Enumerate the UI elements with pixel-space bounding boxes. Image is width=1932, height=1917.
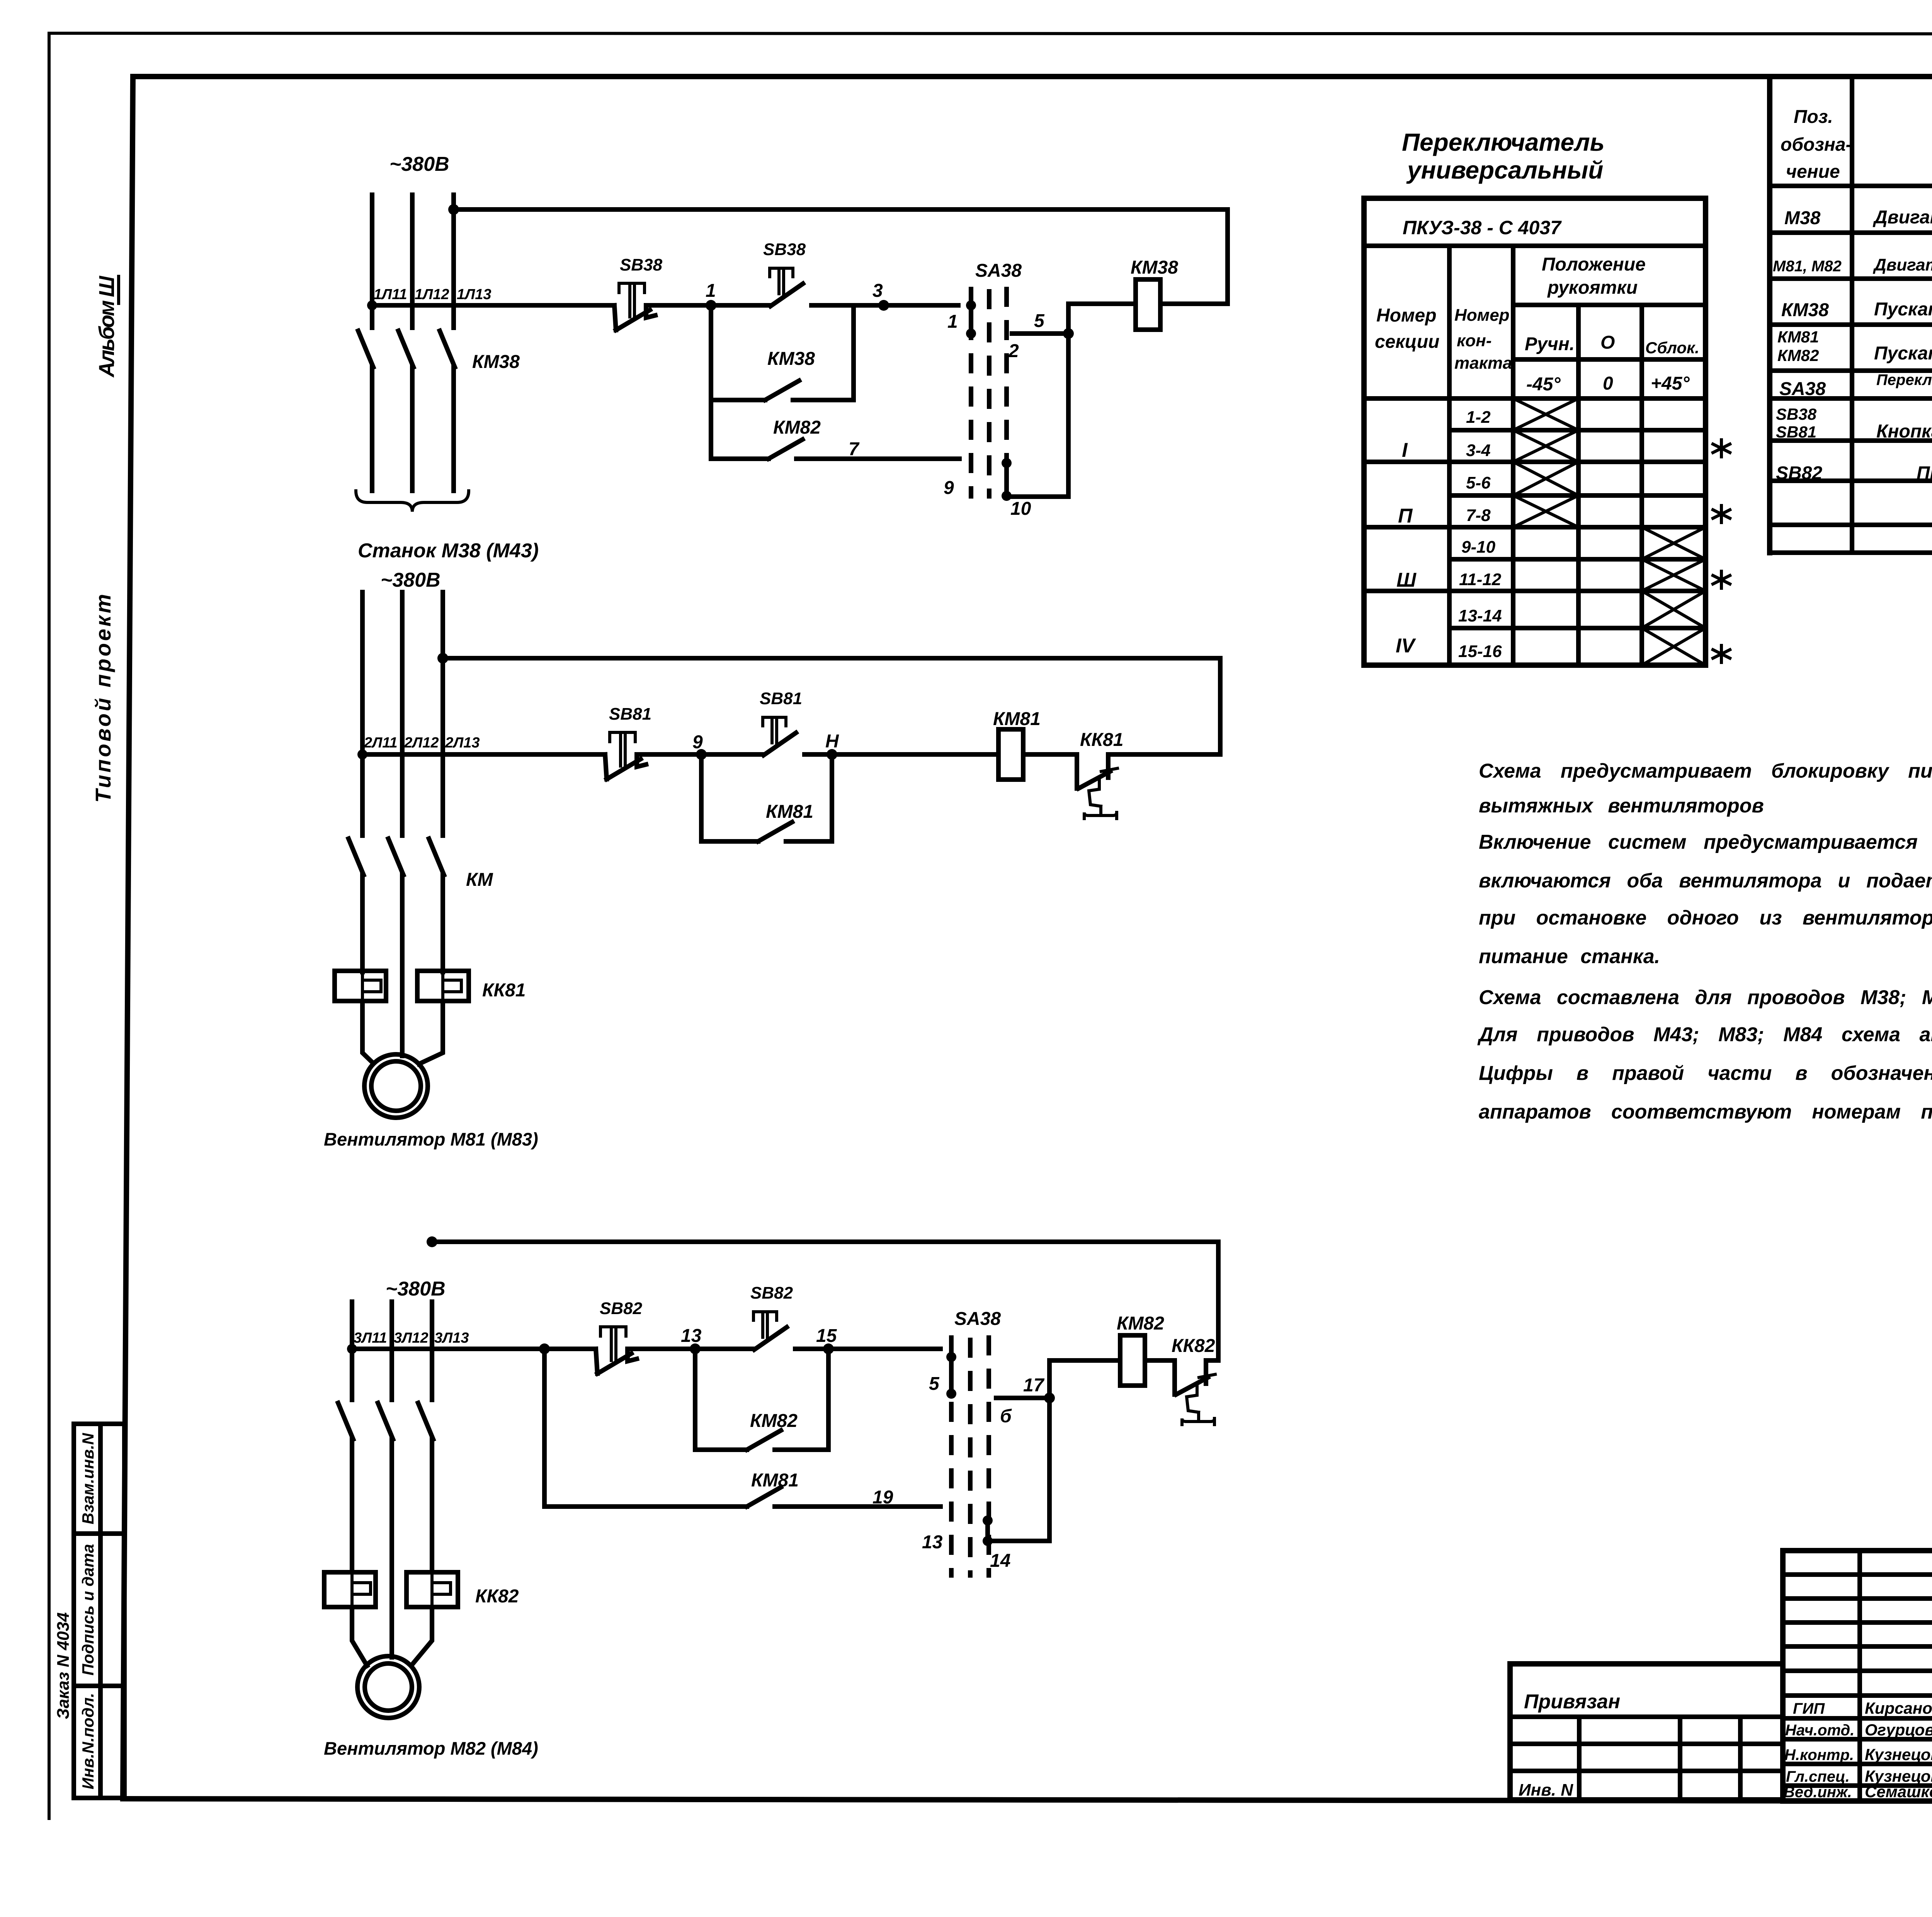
svg-text:Взам.инв.N: Взам.инв.N (79, 1432, 97, 1524)
node top rail tap circuit 1 (448, 204, 459, 215)
svg-text:б: б (1000, 1406, 1012, 1427)
svg-text:КМ38: КМ38 (767, 349, 815, 369)
svg-text:аппаратов соответствуют номе: аппаратов соответствуют номерам приводов… (1479, 1101, 1932, 1123)
thermal element KK81 heater 2 (417, 971, 469, 1001)
svg-text:7-8: 7-8 (1466, 506, 1491, 525)
svg-text:Альбом Ш: Альбом Ш (94, 276, 119, 378)
svg-text:SВ38: SВ38 (1776, 405, 1817, 423)
wire phase 2L13 middle (440, 875, 445, 972)
svg-text:КМ: КМ (466, 870, 493, 890)
parts table row line 6a (1770, 438, 1932, 443)
wire riser to coil line (1066, 304, 1071, 334)
wire bypass down leg (1007, 334, 1068, 497)
wire to motor M81 phase 1 (362, 1001, 374, 1064)
switch table section line III/IV (1364, 589, 1706, 593)
node 13 (690, 1343, 701, 1354)
strip column line b (1678, 1717, 1682, 1800)
svg-text:SВ38: SВ38 (620, 255, 663, 274)
svg-text:SА38: SА38 (975, 260, 1022, 281)
svg-text:Для приводов М43; М83; М84: Для приводов М43; М83; М84 схема аналоги… (1477, 1023, 1932, 1046)
wire phase 3L13 upper (430, 1302, 434, 1400)
node 9 (696, 749, 707, 760)
sheet outer border top (49, 33, 1932, 34)
svg-text:КМ82: КМ82 (1117, 1313, 1164, 1334)
parts table left border (1767, 77, 1772, 553)
thermal contact KK82 (1175, 1360, 1215, 1425)
svg-text:SВ81: SВ81 (760, 689, 802, 708)
switch table column line 3 (1576, 305, 1581, 665)
margin label Взам.инв.N rotated (79, 1432, 97, 1524)
start button SB82 (753, 1312, 787, 1350)
svg-text:17: 17 (1023, 1375, 1045, 1396)
svg-text:КМ81: КМ81 (751, 1470, 799, 1491)
svg-text:Инв.N.подл.: Инв.N.подл. (79, 1693, 97, 1789)
wire KK82 to rail (1206, 1358, 1218, 1363)
node interlock branch tap (539, 1343, 550, 1354)
stop button SB38 (614, 283, 655, 330)
wire phase 3L11 middle (350, 1439, 354, 1572)
node top rail tap circuit 2 (437, 653, 448, 664)
switch table header bottom line (1364, 396, 1706, 401)
wire phase 2L11 middle (360, 875, 365, 972)
contactor KM main contact pole 3 circuit 3 (418, 1403, 433, 1439)
svg-text:Двигатель ~380В; 4,5кВт; 10: Двигатель ~380В; 4,5кВт; 10,1А (1872, 207, 1932, 228)
margin label Подпись и дата rotated (79, 1544, 97, 1675)
svg-text:Номер: Номер (1376, 305, 1437, 326)
node 1 (706, 300, 716, 311)
wire phase 1L11 lower (370, 367, 374, 491)
wire control line segment B circuit 3 (632, 1347, 753, 1351)
contactor KM main contact pole 2 circuit 2 (388, 839, 403, 875)
svg-text:~380В: ~380В (386, 1278, 446, 1300)
wire coil KM82 to KK82 (1145, 1358, 1175, 1363)
wire control line segment A circuit 1 (372, 303, 614, 308)
coil KM82 (1120, 1335, 1145, 1386)
X mark row 13-14 (1642, 591, 1706, 628)
svg-text:+45°: +45° (1651, 373, 1690, 394)
switch table column line 4 (1639, 305, 1644, 665)
svg-text:1: 1 (706, 281, 716, 301)
wire phase 3L12 upper (389, 1302, 394, 1400)
svg-text:чение: чение (1786, 162, 1840, 182)
switch SA38 dashed line 2 lower (968, 1338, 973, 1578)
switch table column line 1 (1447, 246, 1452, 665)
svg-text:Н.контр.: Н.контр. (1784, 1747, 1854, 1764)
wire 5 from SA38 (1012, 331, 1068, 336)
switch SA38 dashed line 3 (1004, 287, 1009, 499)
node top rail tap circuit 3 (427, 1236, 437, 1247)
svg-text:3Л11: 3Л11 (354, 1330, 387, 1346)
switch table outer border (1364, 198, 1706, 665)
svg-text:Вед.инж.: Вед.инж. (1784, 1784, 1852, 1801)
wire to coil KM38 (1068, 301, 1136, 306)
svg-text:Цифры в правой части в обоз: Цифры в правой части в обозначении (1479, 1062, 1932, 1084)
svg-text:Инв. N: Инв. N (1519, 1781, 1573, 1800)
wire phase 3L12 middle (389, 1439, 394, 1657)
label Положение рукоятки (1542, 254, 1646, 298)
svg-text:3Л13: 3Л13 (434, 1330, 469, 1346)
svg-text:3Л12: 3Л12 (394, 1330, 429, 1346)
X mark row 1-2 (1513, 398, 1578, 430)
parts table header bottom (1770, 184, 1932, 188)
svg-text:13-14: 13-14 (1458, 606, 1502, 625)
wire to motor M81 phase 3 (419, 1001, 443, 1064)
svg-text:М81, М82: М81, М82 (1773, 258, 1842, 275)
svg-text:SВ81: SВ81 (1776, 423, 1816, 441)
wire to motor M82 phase 3 (411, 1607, 432, 1666)
wire phase 1L13 lower (451, 367, 456, 491)
parts table column line poz (1850, 77, 1854, 553)
svg-text:Схема предусматривает блокир: Схема предусматривает блокировку питания… (1479, 760, 1932, 782)
svg-text:SВ38: SВ38 (763, 240, 806, 259)
svg-text:КК82: КК82 (1172, 1336, 1215, 1356)
wire phase 2L12 middle (400, 875, 405, 1056)
strip column line c (1738, 1717, 1743, 1800)
title block sig row 1 (1783, 1716, 1932, 1721)
node control line tap circuit 3 (347, 1344, 357, 1354)
svg-text:Вентилятор М82 (М84): Вентилятор М82 (М84) (324, 1738, 538, 1759)
svg-text:Вентилятор М81 (М83): Вентилятор М81 (М83) (324, 1129, 538, 1149)
svg-text:5-6: 5-6 (1466, 473, 1491, 492)
svg-text:ПКУЗ-38 - С 4037: ПКУЗ-38 - С 4037 (1403, 217, 1562, 238)
parts table bottom line (1770, 550, 1932, 555)
svg-text:Номер: Номер (1454, 306, 1510, 325)
svg-text:1: 1 (947, 312, 958, 332)
svg-text:1Л11: 1Л11 (374, 286, 407, 303)
auxiliary contact KM81 self hold branch (701, 754, 832, 841)
margin note Типовой проект rotated (91, 594, 115, 803)
svg-text:П: П (1398, 505, 1413, 527)
X mark row 15-16 (1642, 628, 1706, 665)
wire phase 1L13 upper (451, 195, 456, 328)
brace under machine feeder (356, 491, 469, 512)
svg-text:2Л11: 2Л11 (364, 735, 398, 751)
svg-text:3: 3 (872, 281, 883, 301)
label header Поз обозначение (1781, 107, 1852, 182)
contactor KM38 main contact pole 1 (358, 331, 373, 367)
switch table type row line (1364, 243, 1706, 248)
svg-text:ГИП: ГИП (1793, 1700, 1825, 1717)
svg-text:11-12: 11-12 (1459, 570, 1502, 589)
node control line tap circuit 2 (357, 749, 367, 759)
wire to motor M82 phase 1 (352, 1607, 367, 1666)
switch table row line 1-2/3-4 (1449, 428, 1706, 432)
label switch universal description (1876, 371, 1932, 403)
svg-text:SВ82: SВ82 (750, 1284, 793, 1302)
svg-text:обозна-: обозна- (1781, 134, 1852, 155)
svg-text:Положение: Положение (1542, 254, 1646, 275)
contactor KM main contact pole 2 circuit 3 (378, 1403, 393, 1439)
svg-text:Семашко: Семашко (1865, 1783, 1932, 1801)
drawing frame left line (123, 77, 133, 1799)
svg-text:1-2: 1-2 (1466, 408, 1491, 427)
svg-text:Переключатель: Переключатель (1402, 128, 1605, 156)
interlock contact KM81 branch circuit 3 (544, 1349, 940, 1507)
svg-text:IV: IV (1396, 635, 1416, 657)
svg-text:1Л13: 1Л13 (457, 286, 492, 303)
svg-text:рукоятки: рукоятки (1547, 278, 1638, 298)
wire top rail circuit 1 (454, 209, 1228, 304)
svg-text:Кирсанов:: Кирсанов: (1865, 1699, 1932, 1717)
svg-text:такта: такта (1454, 354, 1512, 373)
svg-text:Кузнецов: Кузнецов (1865, 1745, 1932, 1764)
svg-text:9-10: 9-10 (1461, 538, 1496, 557)
asterisk row 11-12 (1713, 571, 1730, 588)
contactor KM main contact pole 1 circuit 3 (338, 1403, 353, 1439)
svg-text:9: 9 (944, 478, 954, 498)
svg-text:универсальный: универсальный (1406, 156, 1603, 184)
wire bypass down leg circuit 3 (988, 1398, 1049, 1541)
svg-text:Огурцов: Огурцов (1865, 1721, 1932, 1739)
wire from coil KM38 to rail (1160, 301, 1228, 306)
svg-text:Двигатель ~380В;4АХ80А2; 1,5 к: Двигатель ~380В;4АХ80А2; 1,5 кВт; 3,3А (1872, 255, 1932, 274)
wire KK81 to rail (1108, 752, 1220, 757)
title block sig row 4 (1783, 1783, 1932, 1788)
wire coil KM81 to KK81 (1023, 752, 1077, 757)
X mark row 9-10 (1642, 527, 1706, 559)
parts table row line 2 (1770, 276, 1932, 281)
svg-text:I: I (1402, 439, 1408, 461)
switch SA38 dashed line 1 (969, 287, 973, 499)
svg-text:Сблок.: Сблок. (1645, 339, 1699, 357)
switch SA38 contact 1-2 (966, 300, 976, 339)
svg-text:2Л13: 2Л13 (445, 735, 480, 751)
title block vertical role/name (1857, 1551, 1862, 1801)
svg-text:Схема составлена для провод: Схема составлена для проводов М38; М81; … (1479, 986, 1932, 1009)
title block fine row 2 (1783, 1596, 1932, 1601)
svg-text:Ручн.: Ручн. (1525, 334, 1575, 354)
wire control line segment C circuit 1 (811, 303, 958, 308)
svg-text:питание станка.: питание станка. (1479, 945, 1660, 968)
wire riser to coil KM82 (1049, 1360, 1120, 1398)
auxiliary contact KM38 self hold branch (711, 305, 854, 400)
switch table column line 2 (1511, 246, 1515, 665)
X mark row 11-12 (1642, 559, 1706, 591)
parts table row line 5 (1770, 396, 1932, 401)
svg-text:-45°: -45° (1526, 374, 1561, 395)
svg-text:Привязан: Привязан (1524, 1691, 1620, 1713)
node 3 (878, 300, 889, 311)
svg-text:Включение систем предусматри: Включение систем предусматривается кнопк… (1479, 831, 1932, 853)
svg-text:SВ81: SВ81 (609, 705, 651, 724)
wire control line segment A circuit 3 (352, 1347, 596, 1351)
motor M81 (364, 1054, 428, 1118)
switch table section line I/II (1364, 460, 1706, 464)
svg-text:КМ38: КМ38 (1131, 257, 1178, 278)
switch SA38 contact 13-14 (983, 1515, 993, 1546)
start button SB81 (763, 717, 796, 755)
title block sig row 3 (1783, 1762, 1932, 1766)
parts table row line 7 (1770, 478, 1932, 483)
label row SB38 SB81 (1776, 405, 1817, 441)
node control line tap circuit 1 (367, 300, 377, 310)
motor M82 (357, 1656, 419, 1718)
svg-text:Подпись и дата: Подпись и дата (79, 1544, 97, 1675)
svg-text:Гл.спец.: Гл.спец. (1786, 1768, 1850, 1785)
wire 17 from SA38 (996, 1396, 1049, 1400)
svg-text:5: 5 (1034, 311, 1045, 331)
asterisk row 7-8 (1713, 506, 1730, 523)
svg-text:КМ81: КМ81 (993, 709, 1041, 729)
title block attachment strip border (1510, 1664, 1783, 1800)
switch table header line under ruchn (1513, 357, 1706, 362)
thermal element KK82 heater 1 (324, 1572, 376, 1607)
svg-text:при остановке одного из ве: при остановке одного из вентиляторов отк… (1479, 907, 1932, 929)
drawing frame bottom line (123, 1799, 1932, 1802)
svg-text:5: 5 (929, 1374, 940, 1394)
thermal element KK82 heater 2 (406, 1572, 458, 1607)
wire phase 1L12 upper (410, 195, 415, 328)
coil KM81 (998, 729, 1023, 780)
svg-text:3-4: 3-4 (1466, 441, 1491, 460)
switch table section line II/III (1364, 525, 1706, 529)
margin stamp table divider vertical (98, 1424, 103, 1798)
title block fine row 3 (1783, 1620, 1932, 1625)
X mark row 5-6 (1513, 462, 1578, 495)
svg-text:7: 7 (849, 439, 860, 460)
switch table row line 9-10/11-12 (1449, 557, 1706, 562)
svg-text:Кнопка управления: Кнопка управления (1876, 421, 1932, 442)
title block main border (1783, 1551, 1932, 1801)
svg-text:Переключатель универсальный: Переключатель универсальный (1876, 371, 1932, 388)
thermal contact KK81 (1077, 754, 1117, 819)
svg-text:Ш: Ш (1396, 569, 1417, 591)
parts table row line 8 (1770, 523, 1932, 527)
node wire 5 junction (1063, 328, 1074, 339)
svg-text:кон-: кон- (1457, 331, 1492, 350)
title block sig row 2 (1783, 1737, 1932, 1742)
label row KM81 KM82 (1777, 328, 1819, 364)
node H (827, 749, 837, 760)
switch SA38 contact 5-6 (946, 1352, 956, 1399)
svg-text:КК82: КК82 (475, 1586, 519, 1607)
title block fine row 4 (1783, 1644, 1932, 1649)
svg-text:1Л12: 1Л12 (415, 286, 449, 303)
svg-text:КМ81: КМ81 (766, 802, 813, 822)
margin label Инв.N подл. rotated (79, 1693, 97, 1789)
svg-text:Станок М38 (М43): Станок М38 (М43) (358, 540, 539, 562)
svg-text:2Л12: 2Л12 (404, 735, 439, 751)
wire phase 1L11 upper (370, 195, 374, 328)
asterisk row 15-16 (1713, 645, 1730, 662)
margin note Альбом III rotated (94, 276, 119, 378)
wire phase 2L13 upper (440, 592, 445, 836)
svg-text:10: 10 (1010, 499, 1031, 519)
title block sig row 0 (1783, 1693, 1932, 1698)
svg-text:SВ82: SВ82 (1776, 463, 1822, 484)
parts table row line 1 (1770, 230, 1932, 235)
label Номер секции (1375, 305, 1439, 352)
auxiliary contact KM82 self hold branch (695, 1349, 828, 1450)
wire phase 2L11 upper (360, 592, 365, 836)
svg-text:КМ38: КМ38 (1781, 300, 1829, 320)
svg-text:Типовой проект: Типовой проект (91, 594, 115, 803)
svg-text:14: 14 (990, 1551, 1010, 1571)
parts table row line 4 (1770, 368, 1932, 373)
svg-text:19: 19 (872, 1487, 893, 1508)
svg-text:включаются оба вентилятора: включаются оба вентилятора и подается пи… (1479, 870, 1932, 892)
svg-text:Нач.отд.: Нач.отд. (1785, 1722, 1854, 1739)
switch table header line under polozhenie (1513, 303, 1706, 307)
svg-text:SВ82: SВ82 (600, 1299, 643, 1318)
contactor KM38 main contact pole 2 (398, 331, 413, 367)
switch SA38 dashed line 1 lower (949, 1335, 954, 1578)
wire phase 3L13 middle (430, 1439, 434, 1572)
svg-text:Заказ N 4034: Заказ N 4034 (54, 1612, 73, 1720)
contactor KM main contact pole 1 circuit 2 (349, 839, 364, 875)
svg-text:вытяжных вентиляторов: вытяжных вентиляторов (1479, 795, 1764, 817)
node 15 (823, 1343, 834, 1354)
sheet outer border left (48, 33, 51, 1818)
svg-text:КМ82: КМ82 (773, 417, 821, 438)
svg-text:15-16: 15-16 (1458, 642, 1502, 661)
svg-text:2: 2 (1008, 341, 1019, 361)
wire top rail circuit 2 (443, 658, 1220, 754)
svg-text:Поз.: Поз. (1794, 107, 1833, 127)
node wire 17 junction (1044, 1393, 1055, 1403)
svg-text:SА38: SА38 (954, 1309, 1001, 1329)
margin stamp row line 1 (74, 1531, 124, 1536)
contactor KM main contact pole 3 circuit 2 (429, 839, 444, 875)
margin label Заказ N 4034 rotated (54, 1612, 73, 1720)
svg-text:Пускатель ПМЛ221002; Iн-14А: Пускатель ПМЛ221002; Iн-14А (1874, 299, 1932, 320)
svg-text:13: 13 (681, 1326, 702, 1346)
margin stamp row line 2 (74, 1684, 124, 1688)
svg-text:КМ82: КМ82 (750, 1411, 798, 1431)
svg-text:0: 0 (1603, 373, 1613, 394)
start button SB38 (770, 268, 803, 306)
wire control line segment C circuit 2 (804, 752, 998, 757)
switch table row line 13-14/15-16 (1449, 626, 1706, 630)
title block fine row 1 (1783, 1572, 1932, 1577)
switch SA38 contact 9-10 (1002, 458, 1012, 501)
svg-text:КМ82: КМ82 (1777, 346, 1819, 364)
drawing frame top line (133, 74, 1932, 79)
X mark row 7-8 (1513, 495, 1578, 527)
wire control line segment A circuit 2 (362, 752, 605, 757)
svg-text:О: О (1600, 332, 1615, 353)
switch SA38 dashed line 2 (987, 289, 992, 499)
wire control line segment B circuit 2 (641, 752, 762, 757)
coil KM38 (1136, 279, 1160, 330)
wire top rail circuit 3 (432, 1242, 1218, 1360)
thermal element KK81 heater 1 (335, 971, 386, 1001)
label Номер контакта (1454, 306, 1512, 373)
interlock contact KM82 branch circuit 1 (711, 400, 959, 459)
margin stamp table border (74, 1424, 124, 1798)
switch SA38 dashed line 3 lower (986, 1335, 991, 1578)
svg-text:~380В: ~380В (381, 569, 440, 591)
wire phase 1L12 lower (410, 367, 415, 491)
svg-text:секции: секции (1375, 332, 1439, 352)
wire phase 2L12 upper (400, 592, 405, 836)
svg-text:КМ38: КМ38 (472, 352, 520, 372)
wire control line segment C circuit 3 (795, 1347, 940, 1351)
strip column line a (1577, 1717, 1582, 1800)
svg-text:15: 15 (816, 1326, 837, 1346)
svg-text:КК81: КК81 (482, 980, 526, 1001)
svg-text:КМ81: КМ81 (1777, 328, 1819, 346)
switch table row line 5-6/7-8 (1449, 493, 1706, 498)
svg-text:Пускатель ПМЛ121002; Iн-4А: Пускатель ПМЛ121002; Iн-4А (1874, 343, 1932, 364)
svg-text:13: 13 (922, 1532, 943, 1553)
title block fine row 5 (1783, 1668, 1932, 1673)
parts table row line 3 (1770, 322, 1932, 327)
contactor KM38 main contact pole 3 (440, 331, 455, 367)
svg-text:ПКЕ-212-2УЗ: ПКЕ-212-2УЗ (1917, 463, 1932, 484)
svg-text:Н: Н (825, 731, 839, 752)
svg-text:М38: М38 (1784, 208, 1821, 228)
